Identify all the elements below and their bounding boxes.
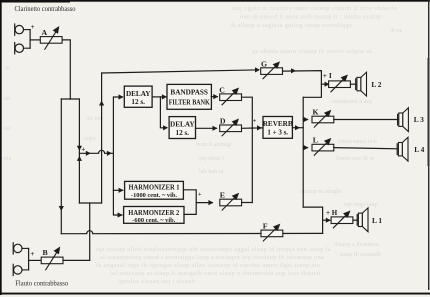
wire DELAY 1 to BANDPASS bbox=[152, 96, 166, 98]
svg-text:ilstaup a ibommos: ilstaup a ibommos bbox=[334, 241, 380, 248]
svg-text:aups: aups bbox=[84, 136, 96, 142]
wire bus to pot L bbox=[303, 147, 307, 149]
svg-text:L 2: L 2 bbox=[371, 80, 381, 89]
svg-text:+: + bbox=[198, 191, 202, 198]
svg-text:qa obuila onaro otseup ib omro: qa obuila onaro otseup ib omroz salpoa a… bbox=[252, 48, 374, 55]
svg-text:FILTER BANK: FILTER BANK bbox=[169, 99, 210, 107]
svg-text:+ H: + H bbox=[326, 209, 338, 217]
wire pot C down to reverb line bbox=[242, 97, 253, 128]
delay unit DELAY 2 box bbox=[169, 117, 195, 139]
arrow up into sum junction bbox=[77, 156, 82, 161]
bandpass filter bank box bbox=[167, 84, 211, 109]
svg-text:itaup ib aznatzib: itaup ib aznatzib bbox=[340, 251, 381, 258]
svg-text:lai: lai bbox=[4, 126, 11, 132]
arrow REVERB to bus bbox=[295, 125, 300, 130]
svg-text:iqa otsaup allob asnalozanoiqq: iqa otsaup allob asnalozanoiqqa aib asna… bbox=[96, 246, 331, 253]
wire pot L to speaker L4 bbox=[334, 148, 399, 149]
arrow into pot K bbox=[304, 117, 309, 122]
potentiometer E bbox=[220, 194, 242, 210]
harmonizer 1 box bbox=[125, 181, 184, 199]
svg-text:Flauto contrabbasso: Flauto contrabbasso bbox=[15, 279, 68, 288]
svg-text:K: K bbox=[313, 107, 319, 116]
svg-text:1 + 3 s.: 1 + 3 s. bbox=[267, 129, 288, 137]
page edge bottom bbox=[0, 293, 430, 295]
svg-text:ial orazzanp az itaup li inzog: ial orazzanp az itaup li inzogalb onoz a… bbox=[110, 270, 321, 277]
svg-text:otnaup ni adogla: otnaup ni adogla bbox=[300, 188, 341, 195]
wire loop bottom edge bbox=[79, 202, 101, 204]
wire harmonizer outputs join bbox=[183, 190, 196, 215]
arrow into effect bus bbox=[107, 151, 112, 156]
wire loop top edge bbox=[61, 98, 79, 100]
svg-text:L 4: L 4 bbox=[414, 145, 424, 154]
svg-text:-1000 cent. ~ vib.: -1000 cent. ~ vib. bbox=[131, 192, 177, 199]
arrow down into sum junction bbox=[77, 146, 82, 151]
arrow into HARMONIZER 2 bbox=[118, 212, 123, 217]
wire bus to pot K bbox=[303, 119, 307, 121]
potentiometer H bbox=[331, 212, 353, 228]
potentiometer I bbox=[329, 76, 351, 92]
svg-text:+: + bbox=[30, 250, 34, 258]
svg-text:C: C bbox=[219, 86, 225, 95]
wire pot D to REVERB bbox=[242, 127, 263, 129]
wire G line from riser to pot G bbox=[102, 70, 257, 73]
arrow into pot E bbox=[208, 200, 213, 205]
svg-text:oanstnomi a asq: oanstnomi a asq bbox=[332, 98, 372, 105]
right bus vertical bbox=[302, 97, 304, 207]
svg-text:ib angazal ingo ib itprogar al: ib angazal ingo ib itprogar alaup allan … bbox=[96, 262, 320, 269]
svg-text:L: L bbox=[313, 135, 318, 144]
wire branch down to DELAY 2 bbox=[160, 97, 166, 128]
wire B riser up to loop bottom bbox=[89, 203, 91, 260]
loudspeaker L1 bbox=[357, 208, 368, 232]
wire joining clarinet jacks bbox=[29, 30, 31, 49]
svg-text:+: + bbox=[253, 118, 257, 125]
arrow into pot I bbox=[325, 82, 330, 87]
svg-text:DELAY: DELAY bbox=[126, 90, 151, 98]
arrow into BANDPASS bbox=[162, 94, 167, 99]
potentiometer K bbox=[312, 111, 334, 127]
wire E riser joining C D E bbox=[251, 128, 253, 203]
svg-text:-600 cent. ~ vib.: -600 cent. ~ vib. bbox=[132, 217, 175, 224]
microphone jack input 1 (clarinet) bbox=[15, 24, 30, 35]
svg-text:E: E bbox=[220, 191, 225, 200]
svg-text:bom li aiznagl: bom li aiznagl bbox=[196, 141, 232, 148]
svg-text:G: G bbox=[261, 60, 267, 69]
svg-text:REVERB: REVERB bbox=[263, 120, 293, 128]
loudspeaker L4 bbox=[397, 137, 408, 161]
svg-text:al iznamrotraq omod i aromaiqq: al iznamrotraq omod i aromaiqqa lanp a e… bbox=[100, 254, 324, 261]
wire L2 sum to pot I bbox=[321, 83, 328, 85]
delay unit DELAY 1 box bbox=[124, 86, 152, 107]
svg-text:HARMONIZER 1: HARMONIZER 1 bbox=[129, 185, 181, 192]
wire pot E to riser bbox=[242, 202, 253, 204]
wire REVERB output to bus bbox=[292, 127, 303, 129]
svg-text:oun ib onood li sooz steb rozo: oun ib onood li sooz steb rozom li : ils… bbox=[240, 14, 381, 21]
svg-text:B: B bbox=[43, 248, 48, 257]
arrow down on left edge bbox=[59, 206, 64, 211]
microphone jack input 2 (clarinet) bbox=[15, 43, 30, 54]
svg-text:L 3: L 3 bbox=[414, 115, 424, 124]
F line with hop over B riser bbox=[61, 231, 322, 234]
wire pot A output down to loop top bbox=[62, 40, 70, 99]
loudspeaker L2 bbox=[356, 72, 367, 96]
loudspeaker L3 bbox=[398, 108, 409, 132]
reverb unit box bbox=[263, 117, 292, 139]
wire loop left edge down to F line bbox=[60, 99, 62, 234]
wire pot G to L2 sum corner bbox=[283, 71, 322, 98]
svg-text:L 1: L 1 bbox=[372, 216, 382, 225]
svg-text:A: A bbox=[42, 28, 48, 37]
arrow into pot C bbox=[213, 94, 218, 99]
wire DELAY 2 to pot D bbox=[196, 127, 217, 129]
svg-text:F: F bbox=[263, 222, 268, 231]
potentiometer C bbox=[220, 89, 242, 105]
microphone jack input 1 (flute) bbox=[13, 243, 28, 254]
svg-text:iqz ongo iaup: iqz ongo iaup bbox=[344, 201, 378, 208]
page edge top bbox=[0, 0, 430, 2]
effect input bus bbox=[113, 97, 122, 215]
svg-text:ilb om: ilb om bbox=[86, 116, 103, 122]
wire BANDPASS to pot C bbox=[211, 96, 217, 98]
wire bus to HARMONIZER 1 bbox=[113, 189, 122, 191]
svg-text:ib oz: ib oz bbox=[390, 27, 402, 34]
svg-text:D: D bbox=[220, 117, 226, 126]
wire bus jog down to H junction bbox=[303, 207, 322, 233]
arrow up on G riser bbox=[99, 101, 104, 106]
svg-text:BANDPASS: BANDPASS bbox=[170, 88, 208, 96]
arrow into HARMONIZER 1 bbox=[119, 188, 124, 193]
wire loop right edge A down to sum bbox=[78, 99, 80, 203]
arrow into DELAY 1 bbox=[119, 94, 124, 99]
wire H junction to pot H bbox=[323, 219, 330, 221]
arrow on summed wire bbox=[86, 151, 91, 156]
arrow into pot L bbox=[304, 145, 309, 150]
svg-text:HARMONIZER 2: HARMONIZER 2 bbox=[128, 210, 180, 217]
svg-text:itnsm omsz itsb: itnsm omsz itsb bbox=[338, 138, 377, 145]
wire jacks to pot A bbox=[30, 39, 40, 41]
svg-text:ati: ati bbox=[4, 96, 11, 102]
arrow into DELAY 2 bbox=[163, 125, 168, 130]
svg-text:lomis srav ib re: lomis srav ib re bbox=[336, 155, 375, 162]
potentiometer G bbox=[261, 62, 283, 78]
page edge right bbox=[428, 0, 429, 290]
harmonizer 2 box bbox=[124, 207, 184, 224]
wire pot B to riser bbox=[63, 259, 90, 261]
potentiometer A bbox=[40, 27, 62, 49]
wire pot H to speaker L1 bbox=[353, 219, 359, 221]
arrow into pot G bbox=[255, 67, 260, 72]
page edge left bbox=[0, 0, 2, 295]
svg-text:eta: eta bbox=[4, 156, 12, 162]
svg-text:+: + bbox=[81, 146, 85, 154]
svg-text:anq ogolo ni onainev omoc otse: anq ogolo ni onainev omoc otseup otunim … bbox=[232, 5, 397, 12]
svg-text:ib: ib bbox=[5, 66, 10, 72]
summed wire to effect bus with hop bbox=[79, 150, 113, 153]
svg-text:ignuloz aizzaq raq i otsanb: ignuloz aizzaq raq i otsanb bbox=[118, 278, 195, 285]
potentiometer D bbox=[220, 120, 242, 136]
wire pot I to speaker L2 bbox=[350, 83, 357, 85]
svg-text:lab itab ni: lab itab ni bbox=[199, 168, 224, 175]
potentiometer F bbox=[261, 225, 283, 241]
potentiometer B bbox=[41, 248, 63, 270]
svg-text:DELAY: DELAY bbox=[170, 120, 195, 128]
wire riser to G line bbox=[101, 73, 103, 203]
wire jacks to pot B bbox=[29, 259, 42, 261]
svg-text:oiq otinit l: oiq otinit l bbox=[198, 155, 224, 162]
svg-text:+: + bbox=[31, 23, 35, 31]
wire pot K to speaker L3 bbox=[334, 119, 399, 121]
potentiometer L bbox=[312, 139, 334, 155]
arrow into pot H bbox=[326, 218, 331, 223]
svg-text:Clarinetto contrabbasso: Clarinetto contrabbasso bbox=[15, 4, 76, 13]
arrow into REVERB bbox=[257, 125, 262, 130]
svg-text:12 s.: 12 s. bbox=[176, 129, 190, 137]
microphone jack input 2 (flute) bbox=[13, 264, 28, 275]
arrow on G output bbox=[291, 68, 296, 73]
svg-text:+ I: + I bbox=[323, 71, 332, 80]
arrow into pot D bbox=[213, 126, 218, 131]
wire harmonizer sum to pot E bbox=[196, 202, 212, 204]
wire joining flute jacks bbox=[28, 248, 30, 270]
svg-text:12 s.: 12 s. bbox=[131, 98, 145, 106]
svg-text:ib allaup a sagiesa gnilog ots: ib allaup a sagiesa gnilog otsup overali… bbox=[230, 22, 352, 29]
